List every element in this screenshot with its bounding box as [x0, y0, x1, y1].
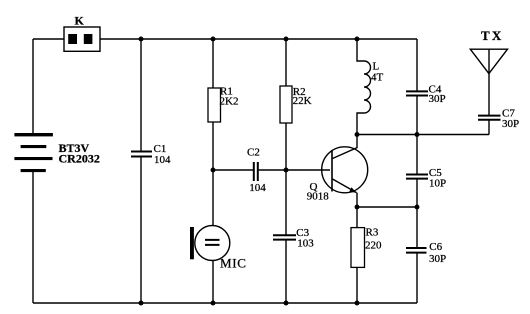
svg-text:220: 220 [365, 239, 382, 251]
svg-text:30P: 30P [429, 253, 446, 265]
svg-text:4T: 4T [371, 71, 384, 83]
svg-text:C2: C2 [247, 146, 260, 158]
svg-text:CR2032: CR2032 [59, 152, 100, 166]
svg-text:TX: TX [481, 28, 503, 43]
svg-text:R3: R3 [366, 227, 379, 239]
svg-text:9018: 9018 [307, 191, 330, 203]
svg-text:104: 104 [154, 154, 171, 166]
svg-text:K: K [75, 14, 85, 28]
svg-text:22K: 22K [293, 95, 312, 107]
svg-text:104: 104 [249, 182, 266, 194]
svg-text:30P: 30P [502, 118, 519, 130]
svg-text:103: 103 [297, 238, 314, 250]
svg-text:C6: C6 [429, 241, 442, 253]
svg-text:10P: 10P [429, 178, 446, 190]
svg-text:MIC: MIC [220, 256, 247, 271]
svg-text:30P: 30P [429, 93, 446, 105]
svg-text:2K2: 2K2 [220, 95, 239, 107]
